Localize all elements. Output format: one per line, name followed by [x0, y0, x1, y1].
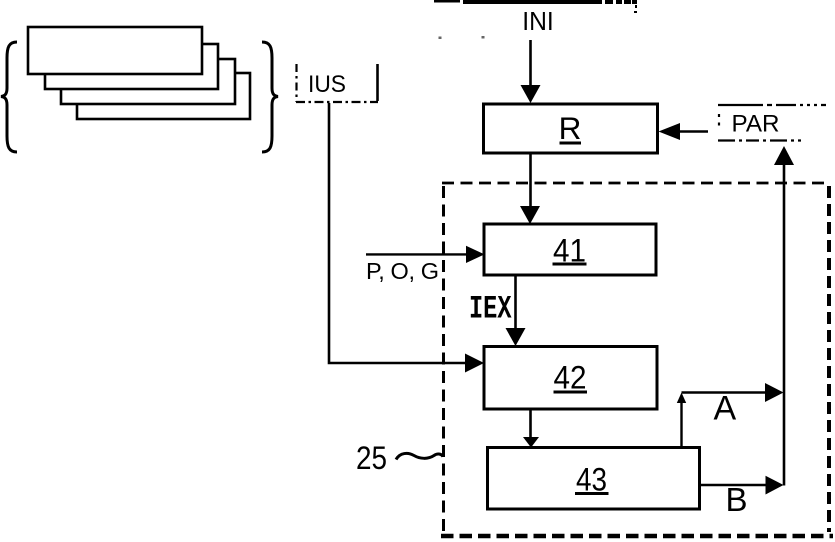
svg-text:IEX: IEX — [469, 291, 512, 328]
svg-text:INI: INI — [522, 6, 554, 36]
svg-text:42: 42 — [554, 360, 587, 396]
svg-text:PAR: PAR — [732, 111, 780, 138]
svg-text:25: 25 — [356, 440, 387, 476]
svg-text:A: A — [714, 390, 737, 428]
svg-text:IUS: IUS — [308, 71, 346, 98]
svg-text:P, O, G: P, O, G — [366, 258, 439, 284]
svg-text:R: R — [559, 110, 582, 146]
svg-text:B: B — [726, 481, 748, 518]
